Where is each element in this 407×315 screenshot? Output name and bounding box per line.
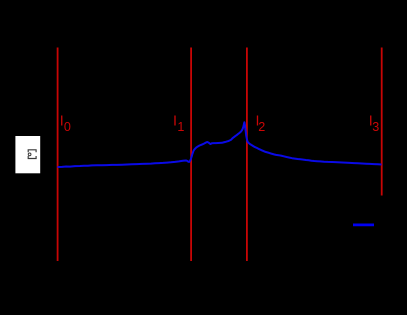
signal curve (58, 122, 382, 167)
ylabel degree sign rotated (28, 153, 31, 156)
label I2 (256, 113, 266, 133)
svg-text:0: 0 (64, 120, 71, 134)
ylabel box (15, 136, 40, 173)
label I0 (60, 113, 71, 133)
svg-text:3: 3 (372, 120, 379, 134)
label I3 (369, 113, 380, 133)
axvline I0 (57, 48, 59, 262)
ylabel bracket [ rotated (28, 156, 36, 159)
svg-text:1: 1 (177, 120, 184, 134)
svg-text:2: 2 (258, 120, 265, 134)
axvline I1 (190, 48, 192, 262)
axvline I3 (381, 48, 383, 196)
label I1 (173, 113, 184, 133)
legend line (353, 223, 374, 226)
ylabel bracket ] rotated (28, 150, 36, 152)
axvline I2 (246, 48, 248, 262)
svg-text:I: I (173, 113, 177, 129)
